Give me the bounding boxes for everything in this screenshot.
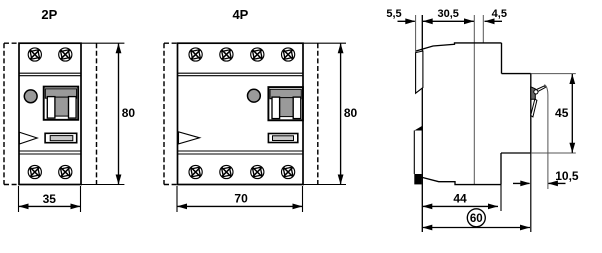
- dashed neighbour outline left of 4P: [164, 43, 178, 184]
- 2P body outline: [19, 43, 81, 184]
- dim 5,5 arrow: [398, 20, 415, 22]
- 2P height extension lines: [81, 43, 124, 184]
- 44 right extension: [500, 185, 502, 211]
- panel face extension down (10,5 / 60): [530, 153, 532, 232]
- 2P height dimension 80: [118, 43, 120, 184]
- 4P top terminal screw 3: [251, 48, 264, 61]
- circled 60: [467, 209, 485, 227]
- 4P height extension lines: [303, 43, 346, 184]
- svg-text:2P: 2P: [41, 7, 57, 22]
- 4P bottom terminal screw 3: [251, 165, 264, 178]
- 2P test button: [24, 90, 37, 103]
- svg-text:44: 44: [453, 192, 467, 206]
- 2P width extension lines: [19, 186, 81, 212]
- extension lines from top dims: [416, 15, 484, 185]
- svg-text:10,5: 10,5: [555, 169, 579, 183]
- toggle lever up position flag: [536, 86, 546, 92]
- 4P top terminal screw 1: [189, 48, 202, 61]
- 4P terminal cover lines bottom: [178, 151, 304, 154]
- 2P terminal cover lines top: [19, 73, 81, 76]
- 2P terminal cover lines bottom: [19, 151, 81, 154]
- svg-text:4,5: 4,5: [492, 8, 507, 20]
- 2P marker triangle: [19, 132, 37, 144]
- 4P test button: [248, 89, 261, 102]
- 4P bottom terminal screw 1: [189, 165, 202, 178]
- upper DIN clip strip: [416, 51, 423, 93]
- svg-text:60: 60: [470, 213, 483, 225]
- 4P body outline: [178, 43, 304, 184]
- dashed neighbour outline right of 2P: [96, 43, 98, 184]
- 4P height dimension 80: [340, 43, 342, 184]
- 4P width dimension 70: [177, 205, 303, 207]
- lower DIN clip strip: [413, 131, 415, 175]
- svg-text:70: 70: [234, 192, 248, 206]
- 2P top terminal screw 2: [59, 48, 72, 61]
- dim 30,5 line and arrows: [423, 20, 474, 22]
- 2P bottom terminal screw 2: [59, 165, 72, 178]
- lower DIN clip wedge: [414, 126, 422, 131]
- dashed neighbour outline right of 4P: [317, 43, 319, 184]
- dashed neighbour outline left of 2P: [4, 43, 19, 184]
- svg-text:80: 80: [122, 106, 136, 120]
- svg-text:80: 80: [344, 106, 358, 120]
- lever tip extension curve for 10,5: [545, 85, 548, 190]
- 2P top terminal screw 1: [28, 48, 41, 61]
- panel bottom shoulder + 45 extension: [501, 152, 531, 154]
- panel front face: [530, 74, 532, 153]
- 4P top terminal screw 2: [220, 48, 233, 61]
- top step shoulder + 45 extension: [502, 73, 531, 75]
- svg-text:5,5: 5,5: [386, 8, 401, 20]
- 4P terminal cover lines top: [178, 73, 304, 76]
- toggle lever pivot: [534, 90, 538, 94]
- toggle lever handle: [531, 99, 537, 117]
- 2P width dimension 35: [19, 205, 81, 207]
- 2P toggle switch: [44, 87, 78, 120]
- dim 60 line: [422, 227, 530, 229]
- 4P top terminal screw 4: [282, 48, 295, 61]
- top sloped face: [416, 43, 502, 51]
- dim 4,5 arrow: [485, 20, 503, 22]
- svg-text:30,5: 30,5: [437, 8, 458, 20]
- 4P width extension lines: [177, 186, 303, 212]
- 2P label plate: [45, 133, 77, 142]
- lower front face: [500, 153, 502, 185]
- 4P bottom terminal screw 2: [220, 165, 233, 178]
- svg-text:35: 35: [43, 192, 57, 206]
- toggle lever support: [531, 87, 536, 100]
- rear face / 60+44 left extension: [421, 15, 423, 232]
- 4P toggle switch: [268, 87, 303, 120]
- svg-text:4P: 4P: [232, 7, 248, 22]
- svg-text:45: 45: [555, 106, 569, 120]
- 4P bottom terminal screw 4: [282, 165, 295, 178]
- upper front face: [501, 43, 503, 74]
- dim 45: [571, 74, 573, 153]
- 4P marker triangle: [179, 132, 200, 144]
- bottom face: [419, 177, 501, 185]
- dim 44: [422, 205, 498, 207]
- 2P bottom terminal screw 1: [28, 165, 41, 178]
- 4P label plate: [268, 134, 297, 143]
- lower DIN clip block: [414, 174, 422, 184]
- dim 10,5: [513, 182, 530, 184]
